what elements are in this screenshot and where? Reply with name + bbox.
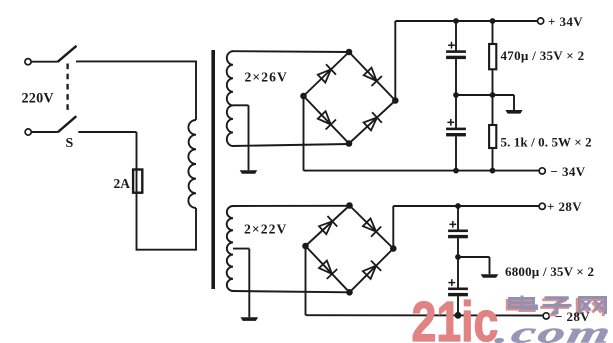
svg-text:2×26V: 2×26V xyxy=(245,70,288,85)
svg-text:2×22V: 2×22V xyxy=(244,222,287,237)
svg-text:+ 34V: + 34V xyxy=(548,14,583,29)
svg-text:2A: 2A xyxy=(114,176,131,191)
svg-text:− 28V: − 28V xyxy=(555,309,590,324)
svg-text:S: S xyxy=(66,136,74,151)
svg-text:220V: 220V xyxy=(22,91,55,107)
svg-text:21ic: 21ic xyxy=(412,290,499,343)
svg-text:+ 28V: + 28V xyxy=(547,199,582,214)
svg-text:470µ / 35V × 2: 470µ / 35V × 2 xyxy=(501,48,585,63)
svg-text:6800µ / 35V × 2: 6800µ / 35V × 2 xyxy=(505,264,594,279)
svg-text:5. 1k / 0. 5W × 2: 5. 1k / 0. 5W × 2 xyxy=(501,134,592,149)
svg-text:.com: .com xyxy=(493,317,613,343)
svg-text:− 34V: − 34V xyxy=(551,164,586,179)
